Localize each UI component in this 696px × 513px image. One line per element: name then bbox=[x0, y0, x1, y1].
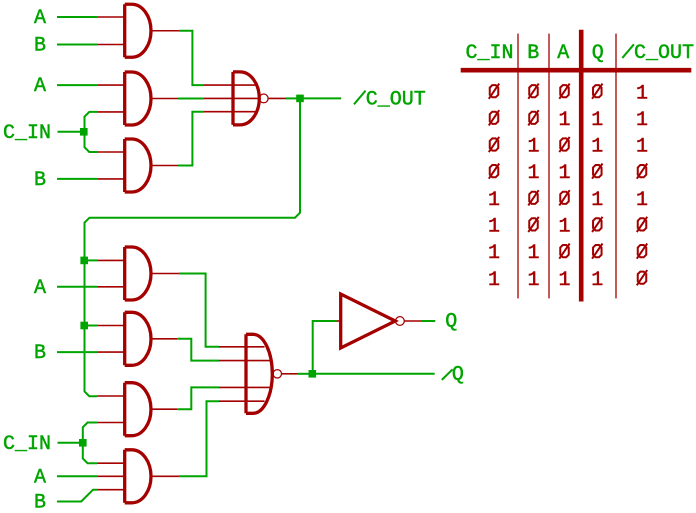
nand-gate N3 body bbox=[233, 72, 259, 125]
svg-text:1: 1 bbox=[488, 242, 500, 265]
wire net A to G1 bbox=[57, 16, 97, 18]
svg-text:1: 1 bbox=[591, 189, 603, 212]
svg-text:1: 1 bbox=[488, 269, 500, 292]
wire G7 output to N4 pin 4 bbox=[179, 401, 219, 476]
inverter U1 bubble bbox=[396, 317, 405, 326]
wire J4 to G5 pin bbox=[88, 325, 97, 327]
wire G2 output to N3 pin 2 bbox=[178, 98, 204, 100]
and-gate G6 pins bbox=[97, 396, 177, 423]
wire J6 up to inverter input bbox=[313, 321, 337, 370]
truth table separator line Q|/C_OUT bbox=[615, 34, 617, 299]
wire G1 output to N3 pin 1 bbox=[179, 31, 204, 85]
svg-text:Q: Q bbox=[592, 42, 604, 65]
wire G4 output to N4 pin 1 bbox=[179, 274, 219, 347]
wire J3 to G4 pin bbox=[88, 259, 97, 261]
svg-text:A: A bbox=[34, 277, 46, 300]
truth table row 5 bbox=[488, 189, 648, 212]
junction J6 (/Q net) bbox=[309, 370, 317, 378]
svg-text:1: 1 bbox=[558, 109, 570, 132]
svg-text:B: B bbox=[34, 492, 46, 513]
truth table row 7 bbox=[488, 242, 647, 265]
wire N3 output to junction J2 bbox=[268, 97, 286, 99]
nand-gate N3 bubble bbox=[259, 94, 268, 103]
wire net B to G3 bbox=[57, 178, 97, 180]
and-gate G5 pins bbox=[97, 326, 177, 353]
and-gate G7 body bbox=[125, 450, 151, 503]
node /C_OUT (output label) bbox=[354, 91, 366, 105]
svg-text:Q: Q bbox=[445, 310, 457, 333]
svg-text:1: 1 bbox=[636, 109, 648, 132]
svg-text:A: A bbox=[557, 42, 569, 65]
wire G6 output to N4 pin 3 bbox=[177, 387, 219, 409]
truth table row 8 bbox=[488, 269, 647, 292]
svg-text:1: 1 bbox=[558, 269, 570, 292]
and-gate G4 body bbox=[125, 247, 151, 300]
nand-gate N4 body bbox=[246, 334, 272, 413]
nand-gate N3 pins bbox=[204, 85, 259, 112]
inverter U1 output pin bbox=[404, 320, 421, 322]
svg-text:1: 1 bbox=[636, 82, 648, 105]
wire J1 down to G3 pin bbox=[85, 132, 98, 152]
svg-text:1: 1 bbox=[558, 162, 570, 185]
and-gate G4 pins bbox=[97, 260, 179, 286]
and-gate G5 body bbox=[125, 312, 151, 365]
junction J4 (gate G5 tap) bbox=[80, 322, 88, 330]
svg-text:B: B bbox=[34, 35, 46, 58]
svg-text:1: 1 bbox=[636, 189, 648, 212]
svg-text:B: B bbox=[527, 42, 539, 65]
svg-text:1: 1 bbox=[591, 136, 603, 159]
junction J3 (gate G4 tap) bbox=[80, 257, 88, 265]
truth table separator thick line A|Q bbox=[579, 30, 584, 302]
and-gate G1 pins bbox=[97, 17, 179, 45]
wire J1 up to G2 pin bbox=[85, 112, 98, 132]
svg-text:C_IN: C_IN bbox=[3, 122, 51, 145]
svg-text:1: 1 bbox=[527, 136, 539, 159]
wire net A to G7 bbox=[57, 475, 97, 477]
junction J1 (C_IN) bbox=[80, 128, 88, 136]
and-gate G2 body bbox=[125, 72, 151, 125]
svg-text:1: 1 bbox=[527, 162, 539, 185]
wire /C_OUT net long run down to bottom gates bbox=[85, 102, 301, 396]
wire J5 down to G7 pin bbox=[83, 443, 97, 463]
truth table row 2 bbox=[489, 109, 648, 132]
svg-text:1: 1 bbox=[527, 269, 539, 292]
truth table row 3 bbox=[489, 136, 648, 159]
wire net A to G4 bbox=[57, 286, 97, 288]
svg-text:1: 1 bbox=[591, 109, 603, 132]
and-gate G3 body bbox=[125, 139, 151, 192]
junction J5 (C_IN bottom) bbox=[79, 439, 87, 447]
svg-text:A: A bbox=[34, 466, 46, 489]
inverter U1 body bbox=[341, 294, 396, 348]
and-gate G2 pins bbox=[97, 85, 178, 112]
truth table header /C_OUT bbox=[622, 44, 634, 58]
svg-text:1: 1 bbox=[488, 189, 500, 212]
svg-text:1: 1 bbox=[591, 269, 603, 292]
svg-text:1: 1 bbox=[527, 242, 539, 265]
svg-text:A: A bbox=[34, 75, 46, 98]
wire net A to G2 bbox=[57, 84, 97, 86]
svg-text:C_OUT: C_OUT bbox=[366, 89, 426, 112]
truth table separator line B|A bbox=[548, 34, 550, 299]
wire G3 output to N3 pin 3 bbox=[178, 112, 204, 166]
truth table row 1 bbox=[489, 82, 648, 105]
wire net B to G5 bbox=[57, 351, 97, 353]
wire J2 to /C_OUT label bbox=[303, 97, 341, 99]
svg-text:C_OUT: C_OUT bbox=[634, 42, 694, 65]
wire net C_IN to junction J1 bbox=[58, 131, 82, 133]
wire inverter output to Q label bbox=[421, 320, 435, 322]
svg-text:A: A bbox=[34, 7, 46, 30]
and-gate G3 pins bbox=[97, 152, 178, 179]
junction J2 (/C_OUT net) bbox=[296, 95, 304, 103]
and-gate G1 body bbox=[125, 4, 151, 57]
svg-text:B: B bbox=[34, 169, 46, 192]
truth table row 4 bbox=[489, 162, 647, 185]
wire net B to G7 bbox=[57, 490, 97, 502]
svg-text:C_IN: C_IN bbox=[466, 42, 514, 65]
truth table separator line C_IN|B bbox=[517, 34, 519, 299]
svg-text:1: 1 bbox=[488, 216, 500, 239]
svg-text:1: 1 bbox=[558, 216, 570, 239]
and-gate G6 body bbox=[125, 383, 151, 436]
node /Q (output label) bbox=[442, 369, 453, 380]
inverter U1 input pin bbox=[337, 320, 342, 322]
svg-text:1: 1 bbox=[636, 136, 648, 159]
nand-gate N4 pins bbox=[219, 347, 271, 401]
wire J5 up to G6 pin bbox=[83, 423, 97, 443]
svg-text:Q: Q bbox=[452, 364, 464, 387]
and-gate G7 pins bbox=[97, 463, 179, 490]
truth table header underline bbox=[461, 68, 692, 73]
svg-text:B: B bbox=[34, 342, 46, 365]
nand-gate N4 bubble bbox=[273, 370, 281, 378]
wire J6 to /Q label bbox=[316, 373, 435, 375]
wire N4 output to junction J6 bbox=[282, 373, 298, 375]
svg-text:C_IN: C_IN bbox=[3, 433, 51, 456]
wire net B to G1 bbox=[57, 44, 97, 46]
wire net C_IN to junction J5 bbox=[58, 442, 81, 444]
truth table row 6 bbox=[488, 216, 647, 239]
wire G5 output to N4 pin 2 bbox=[177, 339, 219, 361]
